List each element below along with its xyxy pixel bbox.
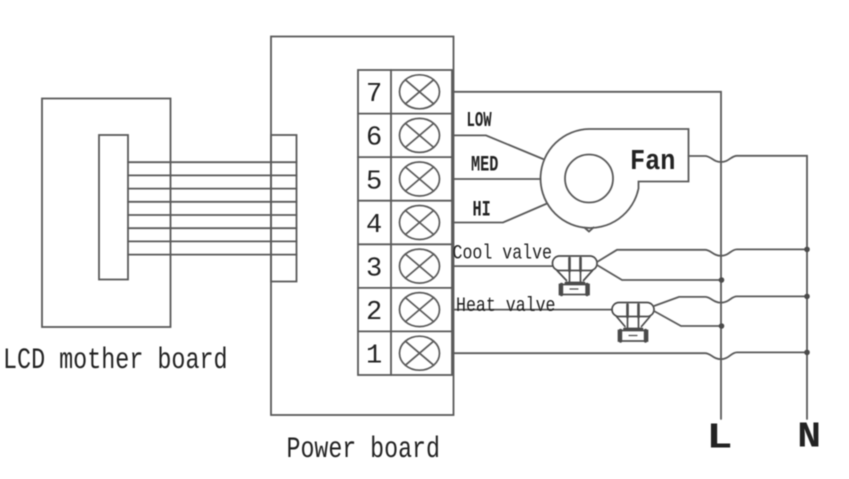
junction dot N fan/cool (804, 247, 810, 253)
ribbon wire 4 (128, 201, 297, 203)
wire terminal2 to heat valve (453, 309, 612, 311)
wire HI: terminal4 to fan (453, 204, 547, 223)
junction dot L heat (719, 323, 725, 329)
svg-text:LCD mother board: LCD mother board (3, 344, 228, 377)
svg-text:Cool valve: Cool valve (453, 242, 553, 265)
ribbon wire 8 (128, 254, 297, 256)
cool valve output wires (597, 249, 807, 280)
terminal block divider column (390, 70, 392, 375)
wire terminal7 to L line, L bus down (453, 92, 721, 419)
ribbon wire 7 (128, 240, 297, 242)
ribbon wire 1 (128, 161, 297, 163)
fan output wire to N top, N bus down (689, 156, 808, 419)
fan inner circle (565, 155, 613, 203)
LCD mother board outline (42, 99, 171, 328)
svg-text:MED: MED (471, 152, 498, 178)
svg-text:3: 3 (366, 255, 382, 285)
junction dot L cool (719, 277, 725, 283)
svg-text:L: L (707, 418, 733, 459)
svg-text:5: 5 (366, 167, 382, 197)
svg-text:Fan: Fan (630, 145, 675, 178)
wire terminal1 to N with hop over L (453, 352, 807, 359)
svg-text:HI: HI (473, 197, 491, 223)
junction dot N terminal1 (804, 350, 810, 356)
svg-text:6: 6 (366, 124, 382, 154)
terminal 2 circle (400, 293, 440, 327)
terminal 1 circle (400, 336, 440, 370)
svg-text:1: 1 (366, 342, 382, 372)
ribbon wire 6 (128, 227, 297, 229)
terminal row divider 6/5 (358, 156, 452, 158)
wire terminal3 to cool valve (453, 265, 552, 267)
svg-text:Heat valve: Heat valve (456, 295, 556, 318)
heat valve output wires (654, 296, 807, 326)
terminal 7 circle (400, 75, 440, 109)
terminal 4 circle (400, 206, 440, 240)
terminal 6 circle (400, 118, 440, 152)
svg-text:N: N (797, 417, 821, 458)
heat valve symbol (612, 303, 654, 342)
ribbon wire 3 (128, 188, 297, 190)
fan blower body U1 (541, 129, 807, 419)
svg-text:4: 4 (366, 211, 382, 241)
wire MED: terminal5 to fan (453, 178, 540, 180)
svg-text:LOW: LOW (467, 109, 492, 133)
terminal row divider 7/6 (358, 113, 452, 115)
terminal row divider 3/2 (358, 287, 452, 289)
terminal row divider 2/1 (358, 330, 452, 332)
terminal 3 circle (400, 249, 440, 283)
LCD connector (inner rectangle) (99, 135, 128, 280)
terminal row divider 5/4 (358, 200, 452, 202)
ribbon wire 2 (128, 174, 297, 176)
svg-text:7: 7 (366, 80, 382, 110)
terminal 5 circle (400, 162, 440, 196)
fan bottom notch (585, 228, 594, 232)
junction dot N heat (804, 294, 810, 300)
terminal block outline (358, 70, 452, 375)
cool valve symbol (553, 256, 598, 295)
terminal row divider 4/3 (358, 243, 452, 245)
power board ribbon connector (271, 135, 297, 282)
svg-text:Power board: Power board (287, 434, 440, 468)
Power board outline (271, 37, 454, 416)
ribbon wire 5 (128, 214, 297, 216)
svg-text:2: 2 (366, 298, 382, 328)
wire LOW: terminal6 to fan (453, 135, 543, 159)
